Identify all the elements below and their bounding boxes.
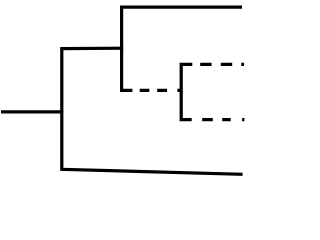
root node with top internal branch and bottom leaf branch: [62, 48, 243, 174]
clade bracket: [181, 64, 192, 119]
dashed lower clade leaf: [202, 118, 244, 121]
internal node with top leaf branch: [122, 7, 242, 90]
root branch: [1, 110, 63, 113]
dashed upper clade leaf: [200, 63, 244, 66]
dashed middle branch: [140, 89, 180, 92]
